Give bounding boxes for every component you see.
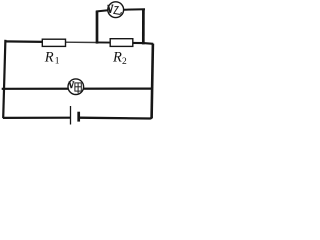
wire: junction to R2	[97, 41, 112, 43]
letter V of middle meter	[69, 82, 75, 88]
wire: top horizontal left segment to R1	[5, 40, 45, 43]
hanzi YI (second meter label) drawn as path	[114, 3, 122, 14]
svg-text:1: 1	[55, 57, 60, 67]
wire: bottom horizontal (battery row)	[3, 117, 70, 119]
wire: R2 to top-right corner	[132, 42, 153, 45]
voltmeter V-yi (top, across R2)	[108, 2, 124, 18]
wire: V-yi loop top branch	[96, 9, 145, 11]
wire: middle horizontal (voltmeter V-jia row)	[2, 87, 152, 89]
wire: right vertical	[152, 44, 153, 119]
hanzi JIA (first meter label) drawn as path	[75, 83, 81, 93]
wire: thin segment R1 to V-yi junction	[64, 41, 98, 43]
voltmeter V-jia (middle, across battery)	[68, 79, 84, 95]
wire: V-yi loop left leg	[96, 11, 99, 43]
letter V of top meter	[107, 5, 113, 13]
svg-text:2: 2	[122, 57, 127, 67]
battery (cell)	[71, 106, 79, 125]
resistor R2	[110, 39, 133, 47]
wire	[79, 117, 152, 119]
wire: left vertical	[3, 40, 5, 118]
resistor R1	[42, 39, 65, 46]
wire: V-yi loop right leg	[142, 9, 145, 44]
svg-text:R: R	[112, 49, 122, 65]
svg-text:R: R	[44, 50, 54, 66]
